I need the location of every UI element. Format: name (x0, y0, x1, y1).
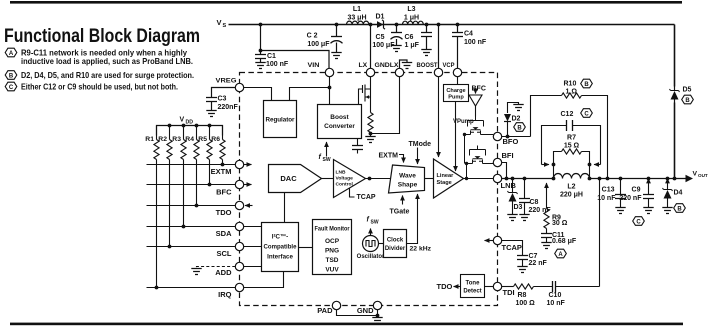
svg-text:Interface: Interface (267, 254, 293, 261)
capacitor C10 (534, 281, 600, 307)
svg-text:BFC: BFC (472, 86, 486, 93)
IC boundary (dashed) (240, 73, 498, 306)
svg-text:R5: R5 (198, 136, 207, 143)
wire charge pump to linear stage (455, 102, 457, 172)
wire BFO to R10 (502, 136, 531, 138)
svg-text:C: C (584, 112, 589, 118)
svg-text:ADD: ADD (215, 268, 232, 277)
capacitor C6 (405, 23, 433, 56)
wire right rail lower (674, 103, 676, 179)
svg-text:R7: R7 (567, 135, 576, 142)
svg-text:22 kHz: 22 kHz (410, 246, 432, 253)
svg-text:Either C12 or C9 should be use: Either C12 or C9 should be used, but not… (21, 82, 178, 91)
svg-text:100 nF: 100 nF (266, 61, 289, 68)
tone detect block (461, 275, 485, 298)
wire IRQ internal (244, 272, 284, 288)
svg-text:EXTM: EXTM (379, 153, 399, 160)
wire C1 node to VIN (261, 51, 330, 69)
resistor R8 (502, 284, 535, 307)
svg-text:D5: D5 (683, 87, 692, 94)
svg-text:C 2: C 2 (307, 33, 318, 40)
pin SDA (216, 222, 262, 238)
wire SCL line (147, 245, 236, 249)
svg-text:TCAP: TCAP (502, 243, 522, 252)
wire LNB output line (502, 178, 675, 180)
resistor R5 (198, 126, 212, 185)
callout B for D5 (682, 95, 694, 104)
node TMode stub to wave shape (409, 141, 432, 164)
svg-text:C: C (9, 85, 14, 91)
wire IRQ line (147, 287, 236, 289)
resistor R4 (185, 126, 199, 206)
svg-text:D2: D2 (512, 116, 521, 123)
title: Functional Block Diagram (4, 25, 200, 47)
wire VDD rail (157, 124, 223, 136)
inductor L3 (403, 6, 424, 25)
svg-text:100 μF: 100 μF (372, 42, 395, 49)
svg-text:BFO: BFO (503, 137, 519, 146)
svg-text:Pump: Pump (448, 95, 464, 101)
op-amp BFC buffer (469, 95, 482, 106)
node EXTM stub to wave shape (379, 153, 404, 163)
resistor R2 (158, 126, 172, 247)
svg-text:B: B (685, 98, 690, 104)
svg-text:OCP: OCP (325, 238, 340, 245)
node Vs label (217, 18, 227, 29)
svg-text:Oscillator: Oscillator (357, 254, 385, 260)
resistor sense (368, 109, 373, 134)
svg-text:1 Ω: 1 Ω (566, 89, 578, 96)
node fsw arrow at oscillator (367, 217, 379, 236)
svg-text:Clock: Clock (387, 238, 404, 244)
svg-text:BFC: BFC (216, 188, 232, 197)
svg-text:DAC: DAC (280, 174, 297, 183)
svg-text:Control: Control (336, 182, 354, 188)
transistor switch at LX (359, 77, 371, 109)
svg-text:VCP: VCP (443, 62, 455, 69)
pin TDO (216, 201, 253, 217)
capacitor C1 (255, 23, 289, 69)
svg-text:Functional Block Diagram: Functional Block Diagram (4, 25, 200, 47)
svg-text:SCL: SCL (217, 249, 232, 258)
svg-text:B: B (584, 82, 589, 88)
svg-text:C3: C3 (218, 96, 227, 103)
svg-text:TDO: TDO (216, 208, 232, 217)
svg-text:C4: C4 (464, 31, 473, 38)
wire BFI to LNB line (502, 163, 509, 181)
svg-text:R8: R8 (518, 292, 527, 299)
svg-text:B: B (677, 207, 682, 213)
capacitor boost internal (352, 139, 363, 154)
svg-text:LX: LX (359, 62, 368, 69)
oscillator (357, 236, 385, 261)
svg-text:30 Ω: 30 Ω (552, 220, 568, 227)
callout B for D2 (514, 123, 526, 132)
node BFC stub internal (472, 86, 486, 94)
wire transistor chain (463, 133, 494, 180)
note B hexagon (5, 71, 17, 80)
wire BOOST to linear stage (438, 77, 440, 157)
pin PAD (317, 301, 340, 315)
svg-text:100 Ω: 100 Ω (516, 300, 536, 307)
svg-text:C8: C8 (530, 199, 539, 206)
op-amp DAC (269, 165, 322, 193)
svg-text:C10: C10 (549, 292, 562, 299)
pin VREG (216, 78, 244, 92)
wire EXTM line (147, 163, 236, 167)
pin BFI (493, 151, 513, 167)
svg-text:33 μH: 33 μH (347, 15, 366, 22)
svg-text:R3: R3 (172, 136, 181, 143)
callout A for C11 (555, 249, 567, 258)
svg-text:GND: GND (357, 306, 374, 315)
svg-text:TCAP: TCAP (357, 194, 376, 201)
svg-text:C13: C13 (602, 187, 615, 194)
page top rule (10, 1, 682, 4)
svg-text:1 μF: 1 μF (405, 42, 420, 49)
svg-text:C5: C5 (376, 34, 385, 41)
svg-text:Charge: Charge (446, 88, 465, 94)
svg-text:LNB: LNB (336, 170, 347, 176)
svg-text:TDI: TDI (503, 288, 515, 297)
svg-text:R4: R4 (185, 136, 194, 143)
pin VCP (443, 62, 462, 77)
svg-text:VREG: VREG (216, 78, 237, 85)
ground ADD (dashed) (191, 267, 235, 275)
diode D4 (662, 177, 682, 214)
svg-text:PNG: PNG (325, 248, 339, 255)
note C text (21, 82, 178, 91)
pin SCL (217, 242, 262, 258)
svg-text:L2: L2 (567, 184, 575, 191)
svg-text:B: B (9, 74, 14, 80)
wire oscillator to clock divider (379, 243, 384, 245)
wire BFC line (147, 183, 236, 187)
wire SDA line (147, 225, 236, 229)
wire TDO line (147, 204, 236, 208)
svg-text:PAD: PAD (317, 306, 333, 315)
svg-text:220nF: 220nF (218, 104, 239, 111)
pin LNB (493, 174, 516, 190)
transistor Q1 upper (465, 117, 487, 135)
svg-text:R10: R10 (564, 81, 577, 88)
svg-text:V: V (693, 171, 698, 178)
svg-text:TSD: TSD (326, 257, 339, 264)
svg-text:SW: SW (323, 157, 331, 163)
svg-text:0.68 μF: 0.68 μF (552, 238, 577, 245)
svg-text:C: C (636, 220, 641, 226)
svg-text:B: B (517, 126, 522, 132)
resistor R10 (531, 81, 610, 181)
callout C for C9 (633, 217, 645, 226)
wire i2c to fault monitor (299, 247, 313, 249)
pin ADD (215, 262, 261, 277)
svg-text:100 nF: 100 nF (464, 39, 487, 46)
wire DAC to LNB control (322, 178, 334, 180)
node VDD label (180, 117, 194, 126)
svg-text:VPump: VPump (453, 119, 474, 125)
node VPump (453, 106, 476, 125)
callout B for D4 (674, 204, 686, 213)
svg-text:V: V (180, 117, 185, 124)
note B text (21, 71, 194, 80)
svg-text:D4: D4 (674, 190, 683, 197)
svg-text:R6: R6 (211, 136, 220, 143)
wire wave shape to linear stage (425, 178, 434, 180)
pin GNDLX (375, 62, 404, 77)
note C hexagon (5, 82, 17, 91)
svg-text:TDO: TDO (437, 282, 453, 291)
wire VCP to charge pump (457, 77, 459, 85)
svg-text:inductive load is applied, suc: inductive load is applied, such as ProBa… (21, 57, 193, 66)
pin BOOST (417, 62, 443, 77)
transistor Q2 lower (467, 146, 490, 164)
svg-text:Boost: Boost (330, 114, 349, 121)
svg-text:IRQ: IRQ (218, 290, 232, 299)
svg-text:100 μF: 100 μF (307, 41, 330, 48)
svg-text:Tone: Tone (466, 281, 481, 287)
svg-text:R2: R2 (158, 136, 167, 143)
pin BFC (216, 180, 251, 196)
node TCAP stub at LNB control (350, 188, 376, 201)
svg-text:BOOST: BOOST (417, 62, 439, 69)
capacitor C5 (372, 23, 402, 52)
svg-text:VIN: VIN (308, 62, 320, 69)
ground GNDLX external (400, 60, 413, 69)
wire clock to wave shape (407, 194, 432, 253)
svg-text:GNDLX: GNDLX (375, 62, 399, 69)
resistor R6 (211, 126, 225, 165)
diode D1 (369, 14, 385, 30)
svg-text:C9: C9 (632, 187, 641, 194)
capacitor C13 (597, 177, 626, 214)
wire Vs rail (229, 25, 675, 87)
note A text (21, 48, 193, 66)
capacitor C8 (519, 177, 551, 221)
svg-text:C6: C6 (405, 34, 414, 41)
pin TDI (485, 282, 515, 297)
resistor R9 (544, 183, 568, 234)
node fsw arrow to boost (319, 142, 331, 163)
svg-text:VUV: VUV (325, 267, 339, 274)
resistor R1 (145, 126, 159, 160)
pin IRQ (218, 283, 244, 299)
pin LX (359, 62, 375, 77)
svg-text:BFI: BFI (502, 151, 514, 160)
svg-text:Wave: Wave (399, 173, 416, 180)
svg-text:OUT: OUT (698, 173, 708, 178)
svg-text:EXTM: EXTM (211, 167, 232, 176)
wire VIN to Boost and Regulator (290, 77, 332, 105)
svg-text:D2, D4, D5, and R10 are used f: D2, D4, D5, and R10 are used for surge p… (21, 71, 194, 80)
svg-text:D3: D3 (514, 204, 523, 211)
pin BFO (493, 132, 518, 146)
op-amp LNB Voltage Control U2 (334, 160, 366, 198)
resistor R7 (552, 135, 592, 167)
callout C for C12 (581, 109, 593, 118)
diode D5 (670, 87, 692, 103)
pin GND (357, 301, 382, 315)
svg-text:10 nF: 10 nF (547, 300, 566, 307)
page bottom rule (10, 323, 683, 326)
svg-text:Detect: Detect (463, 289, 481, 295)
svg-text:SW: SW (371, 220, 379, 226)
note A hexagon (5, 48, 17, 57)
capacitor C2 (307, 23, 343, 59)
wire linear stage output to LNB (464, 178, 494, 180)
capacitor C11 (541, 232, 577, 249)
svg-text:Compatible: Compatible (264, 244, 298, 251)
regulator block (264, 101, 297, 138)
capacitor C9 (619, 177, 654, 214)
wire LNB control to Wave Shape (366, 177, 392, 181)
svg-text:S: S (223, 23, 227, 29)
clock divider block (384, 230, 407, 258)
pin VIN (308, 62, 334, 77)
wire DAC to i2c (284, 193, 286, 223)
boost converter block (318, 105, 362, 139)
svg-text:10 nF: 10 nF (597, 195, 616, 202)
svg-text:TGate: TGate (390, 209, 410, 216)
inductor L1 (347, 6, 369, 25)
inductor L2 (552, 165, 592, 199)
wire VREG to Regulator (244, 88, 272, 101)
wire BOOST riser (437, 23, 441, 69)
node VOUT (673, 171, 708, 183)
pin TCAP (485, 236, 522, 252)
svg-text:Shape: Shape (398, 182, 418, 189)
diode D2 (504, 103, 524, 139)
svg-text:220 μH: 220 μH (560, 192, 583, 199)
node TGate stub to wave shape (390, 196, 410, 216)
ground sense resistor (365, 132, 375, 143)
svg-text:A: A (558, 252, 563, 258)
svg-text:SDA: SDA (216, 229, 232, 238)
svg-text:DD: DD (186, 120, 194, 126)
svg-text:Fault Monitor: Fault Monitor (315, 226, 350, 233)
op-amp linear stage (434, 159, 464, 198)
svg-text:LNB: LNB (501, 181, 517, 190)
capacitor C4 (452, 23, 487, 69)
resistor R3 (172, 126, 186, 227)
svg-text:V: V (217, 18, 222, 27)
svg-text:220 nF: 220 nF (619, 195, 642, 202)
svg-text:Voltage: Voltage (336, 176, 354, 182)
wire LX riser (370, 25, 372, 69)
svg-text:Divider: Divider (385, 246, 406, 252)
wave shape block (389, 165, 425, 193)
svg-text:L1: L1 (353, 6, 361, 13)
svg-text:R1: R1 (145, 136, 154, 143)
svg-text:A: A (9, 51, 14, 57)
charge pump block (444, 85, 469, 102)
svg-text:15 Ω: 15 Ω (564, 143, 580, 150)
diode D3 (507, 177, 522, 221)
callout B for R10 (581, 79, 593, 88)
svg-text:1 μH: 1 μH (404, 15, 419, 22)
wire R1 column to IRQ (155, 160, 159, 290)
svg-text:Regulator: Regulator (266, 117, 296, 124)
node TDO stub at tone detect (437, 282, 461, 291)
svg-text:TMode: TMode (409, 141, 432, 148)
svg-text:L3: L3 (407, 6, 415, 13)
pin EXTM (211, 160, 252, 176)
svg-text:I²C™-: I²C™- (272, 234, 289, 241)
i2c block (262, 223, 299, 272)
svg-text:22 nF: 22 nF (529, 260, 548, 267)
svg-text:Linear: Linear (437, 173, 455, 179)
fault monitor block (313, 220, 352, 275)
svg-text:C12: C12 (561, 111, 574, 118)
wire C10 riser (598, 177, 602, 287)
ground PAD GND external (337, 310, 383, 324)
svg-text:D1: D1 (376, 14, 385, 21)
svg-text:Converter: Converter (324, 123, 355, 130)
capacitor C12 (542, 111, 601, 165)
capacitor C7 (502, 241, 548, 273)
svg-text:C1: C1 (267, 53, 276, 60)
svg-text:C7: C7 (529, 253, 538, 260)
capacitor C3 (206, 88, 238, 117)
svg-text:Stage: Stage (437, 180, 452, 186)
wire GNDLX internal (371, 77, 400, 134)
